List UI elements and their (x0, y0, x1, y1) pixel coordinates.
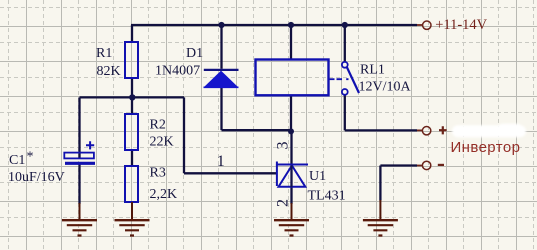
svg-text:U1: U1 (309, 169, 326, 184)
svg-text:10uF/16V: 10uF/16V (8, 170, 65, 185)
svg-text:1N4007: 1N4007 (155, 64, 200, 79)
svg-text:C1: C1 (9, 153, 25, 168)
svg-text:*: * (27, 150, 34, 165)
svg-text:RL1: RL1 (360, 63, 385, 78)
svg-text:12V/10A: 12V/10A (359, 79, 412, 94)
svg-text:R3: R3 (150, 166, 166, 181)
svg-text:82K: 82K (97, 64, 121, 79)
svg-text:R1: R1 (96, 46, 112, 61)
svg-text:D1: D1 (186, 46, 203, 61)
svg-text:Инвертор: Инвертор (451, 139, 521, 156)
svg-text:22K: 22K (150, 135, 174, 150)
svg-text:1: 1 (217, 153, 225, 170)
svg-text:2,2K: 2,2K (150, 187, 178, 202)
svg-text:R2: R2 (150, 118, 166, 133)
svg-text:TL431: TL431 (308, 188, 346, 203)
svg-text:2: 2 (274, 199, 291, 207)
svg-text:+11-14V: +11-14V (435, 17, 487, 33)
svg-text:3: 3 (275, 142, 292, 150)
